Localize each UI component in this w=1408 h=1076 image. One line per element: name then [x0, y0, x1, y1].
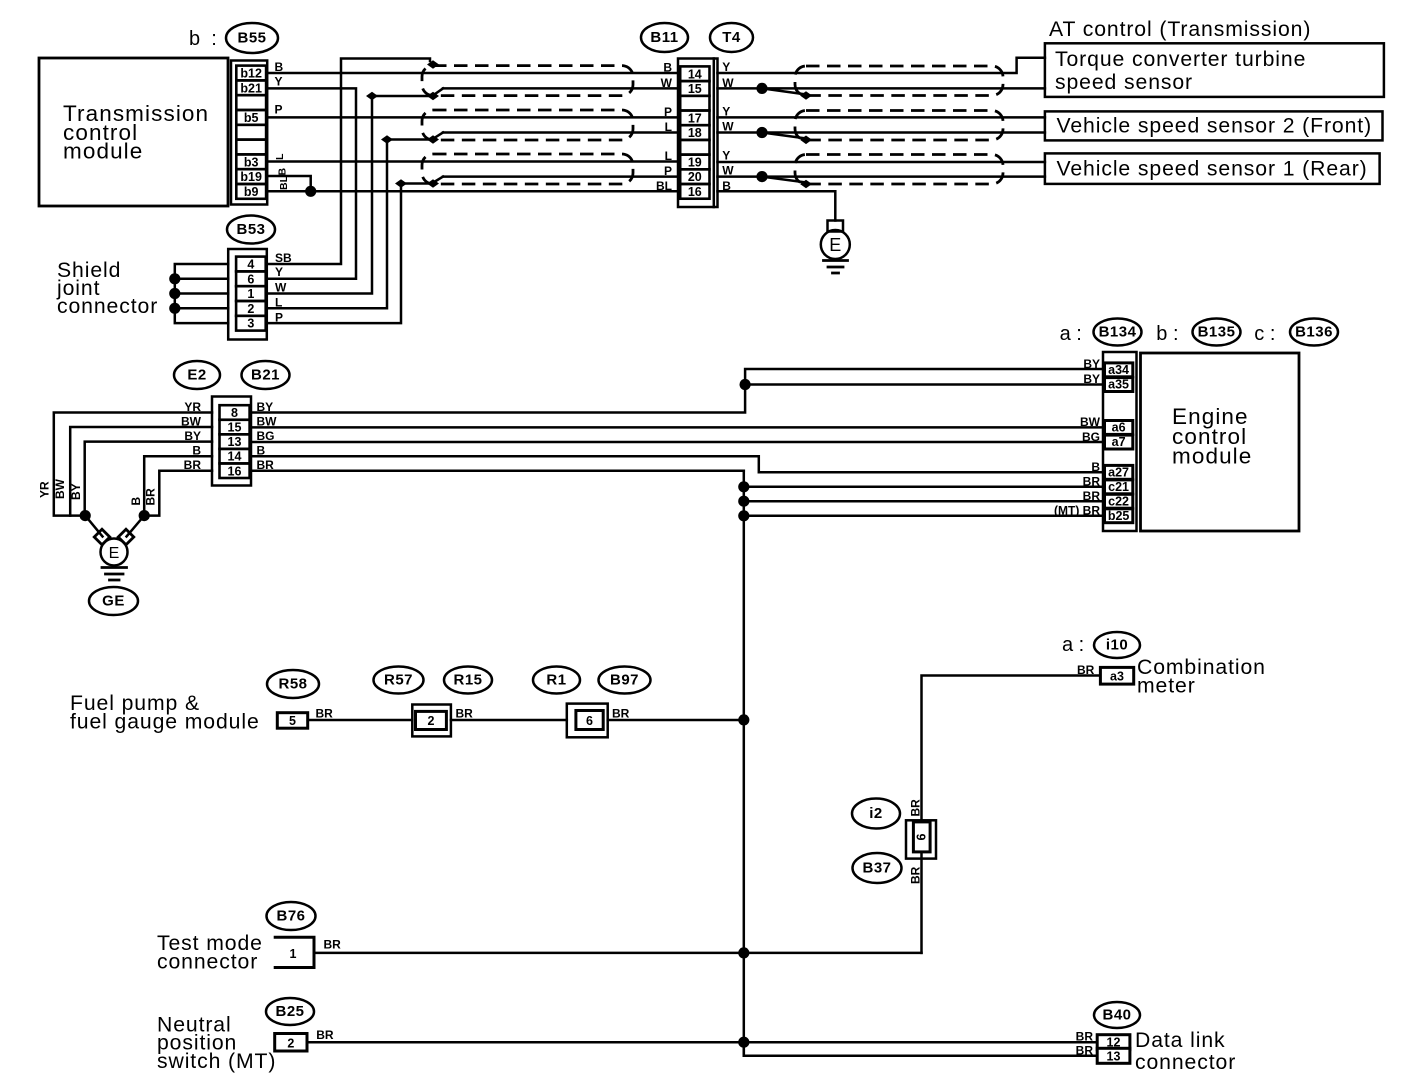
wire BR trunk to ECM c21 — [744, 486, 1105, 489]
connector B25 pin 2 — [275, 1028, 334, 1051]
wire BW from B21 pin 15 to ECM a6 — [251, 426, 1105, 429]
svg-text:E: E — [829, 235, 841, 255]
ground E symbol (engine ground) — [94, 529, 134, 580]
svg-text:R1: R1 — [546, 672, 566, 689]
svg-text:BR: BR — [1076, 1044, 1094, 1058]
connector R58 pin 5 — [277, 707, 333, 729]
svg-text:module: module — [1172, 444, 1252, 469]
svg-text:6: 6 — [915, 833, 929, 840]
connector R57/R15 pin 2 — [412, 705, 473, 737]
svg-text:BY: BY — [69, 483, 83, 500]
wire b21 Y down to B53 pin 6 — [266, 75, 356, 279]
svg-text:BR: BR — [1077, 663, 1095, 677]
E2 left wire color labels — [181, 400, 202, 472]
wire 20 W to vehicle speed sensor 1 — [718, 171, 1045, 188]
svg-text:BR: BR — [909, 866, 923, 884]
svg-text:B53: B53 — [236, 221, 265, 238]
svg-text:12: 12 — [1107, 1036, 1121, 1050]
svg-text:AT control (Transmission): AT control (Transmission) — [1049, 18, 1311, 41]
svg-text:L: L — [274, 153, 286, 160]
svg-text:T4: T4 — [722, 29, 741, 46]
svg-text:SB: SB — [275, 251, 292, 265]
svg-text:W: W — [661, 76, 673, 90]
wire b3 L to B11 pin 19 — [268, 153, 679, 162]
svg-text:Data link: Data link — [1135, 1029, 1226, 1052]
connector label B40 — [1094, 1002, 1140, 1028]
svg-text:B135: B135 — [1198, 324, 1236, 341]
wire E2 pin 13 BY to ground — [80, 442, 212, 537]
svg-text:BY: BY — [1083, 357, 1100, 371]
svg-text:E: E — [109, 545, 120, 562]
svg-text:13: 13 — [1107, 1049, 1121, 1063]
svg-text:i10: i10 — [1106, 637, 1128, 654]
svg-text:B: B — [663, 61, 672, 75]
wire R15 to R1 — [451, 719, 567, 722]
connector R1/B97 pin 6 — [567, 704, 630, 738]
wire BR from B21 pin 16 to trunk — [251, 469, 744, 472]
wire E2 pin 8 YR to ground — [54, 413, 212, 516]
svg-text:16: 16 — [688, 185, 702, 199]
svg-text:Vehicle speed sensor 1 (Rear): Vehicle speed sensor 1 (Rear) — [1057, 158, 1368, 181]
svg-text:W: W — [275, 281, 287, 295]
svg-text:Torque converter turbine: Torque converter turbine — [1055, 48, 1306, 71]
svg-text:BL: BL — [656, 179, 672, 193]
svg-text:connector: connector — [157, 951, 258, 974]
svg-text:BR: BR — [1083, 489, 1101, 503]
shield 2 right — [795, 111, 1003, 141]
svg-text:BR: BR — [1076, 1030, 1094, 1044]
svg-text:BR: BR — [316, 707, 334, 721]
ECM connector bracket and pins — [1103, 352, 1137, 531]
svg-text:R58: R58 — [278, 676, 307, 693]
svg-text:B: B — [275, 60, 284, 74]
svg-text:BG: BG — [1082, 430, 1100, 444]
rotated wire color labels at ground — [38, 478, 158, 505]
svg-text:2: 2 — [287, 1037, 294, 1051]
wire E2 pin 14 B to ground — [144, 456, 212, 515]
wire BY from B21 pin 8 to ECM a34/a35 — [251, 369, 1105, 413]
shield 2 left (pair 17/18) — [422, 110, 633, 140]
combination meter connector a3 — [1077, 663, 1134, 684]
svg-text:P: P — [275, 311, 283, 325]
svg-text:14: 14 — [228, 450, 242, 464]
wire R58 to R57 — [308, 719, 413, 722]
connector label b : B55 — [189, 23, 278, 53]
svg-text:b21: b21 — [240, 81, 262, 95]
svg-text:B: B — [277, 168, 289, 176]
trunk BR vertical — [738, 471, 749, 1056]
svg-text:L: L — [665, 149, 672, 163]
svg-text:P: P — [664, 105, 672, 119]
fuel pump & fuel gauge module text — [70, 692, 260, 734]
svg-text:speed sensor: speed sensor — [1055, 71, 1193, 94]
connector label R15 — [444, 667, 492, 694]
svg-text:19: 19 — [688, 156, 702, 170]
svg-text:16: 16 — [228, 464, 242, 478]
shield drain SB: B53 pin 4 up to shield 1 — [266, 59, 439, 265]
svg-text:B136: B136 — [1295, 324, 1333, 341]
connector label B37 — [853, 853, 902, 883]
connector label R57 — [374, 667, 424, 694]
svg-text:BY: BY — [1083, 372, 1100, 386]
svg-text:5: 5 — [289, 714, 296, 728]
svg-text:GE: GE — [102, 593, 125, 610]
svg-text:a6: a6 — [1112, 421, 1126, 435]
combination meter text — [1137, 656, 1266, 698]
ground label GE — [89, 587, 138, 615]
svg-text:a7: a7 — [1112, 435, 1126, 449]
svg-text:b3: b3 — [244, 155, 259, 169]
svg-text:L: L — [275, 296, 282, 310]
svg-text:B: B — [129, 497, 143, 506]
wire 16 B to ground — [718, 191, 836, 220]
svg-text:P: P — [664, 164, 672, 178]
torque converter turbine speed sensor box — [1045, 43, 1384, 97]
wire E2 pin 16 BR to ground — [127, 471, 213, 537]
svg-text:13: 13 — [228, 435, 242, 449]
svg-text:17: 17 — [688, 111, 702, 125]
wire 18 W to vehicle speed sensor 2 — [718, 127, 1045, 144]
connector E2/B21 — [212, 397, 251, 486]
wire trunk to data link pin 13 — [744, 1042, 1097, 1056]
svg-text:E2: E2 — [187, 367, 206, 384]
svg-text:BR: BR — [909, 799, 923, 817]
shield 3 right — [795, 155, 1003, 185]
svg-text:c :: c : — [1254, 323, 1275, 345]
wire B97 to trunk — [608, 719, 744, 722]
svg-text:3: 3 — [247, 317, 254, 331]
svg-text:connector: connector — [1135, 1051, 1236, 1074]
svg-text:R57: R57 — [384, 672, 413, 689]
svg-text:b25: b25 — [1108, 509, 1130, 523]
svg-text:18: 18 — [688, 126, 702, 140]
wire (MT) BR trunk to ECM b25 — [744, 515, 1105, 518]
svg-text:P: P — [275, 103, 283, 117]
B21 right wire color labels — [257, 400, 278, 472]
wire 17 Y to vehicle speed sensor 2 — [718, 116, 1045, 119]
wire E2 pin 15 BW to ground — [70, 427, 212, 516]
svg-text:fuel gauge module: fuel gauge module — [70, 711, 260, 734]
connector label B53 — [227, 216, 275, 244]
drain L: B53 pin 2 up to wire 18 — [266, 133, 443, 309]
svg-text:Y: Y — [722, 149, 730, 163]
svg-text:15: 15 — [228, 421, 242, 435]
svg-text:R15: R15 — [453, 672, 482, 689]
wire W to B11 pin 15 — [443, 87, 678, 90]
svg-text:a27: a27 — [1108, 466, 1129, 480]
svg-text:b5: b5 — [244, 111, 259, 125]
wire L to B11 pin 18 — [443, 131, 678, 134]
svg-text:b9: b9 — [244, 185, 259, 199]
svg-text:L: L — [665, 120, 672, 134]
test mode connector text — [157, 932, 263, 974]
svg-text:2: 2 — [428, 714, 435, 728]
svg-text:a :: a : — [1062, 634, 1084, 656]
svg-text:B11: B11 — [650, 29, 678, 46]
Transmission control module block — [39, 58, 228, 206]
connector label B21 — [242, 361, 290, 389]
wire b12 B to B11 pin 14 — [268, 60, 679, 74]
svg-text:c22: c22 — [1108, 494, 1129, 508]
connector B55 — [231, 61, 267, 205]
svg-text:BR: BR — [324, 938, 342, 952]
B11 right wire color labels — [722, 60, 734, 193]
connector label a : i10 — [1062, 632, 1140, 658]
svg-text:8: 8 — [231, 406, 238, 420]
svg-text:c21: c21 — [1108, 480, 1129, 494]
wire BG from B21 pin 13 to ECM a7 — [251, 441, 1105, 444]
connector label B76 — [267, 902, 316, 930]
svg-text:i2: i2 — [869, 805, 883, 822]
connector label T4 — [710, 23, 753, 52]
svg-text:6: 6 — [586, 714, 593, 728]
wire b5 P to B11 pin 17 — [268, 103, 679, 118]
svg-text:switch (MT): switch (MT) — [157, 1050, 276, 1073]
svg-text:a35: a35 — [1108, 378, 1129, 392]
svg-text:B97: B97 — [610, 672, 639, 689]
svg-text:b19: b19 — [240, 170, 262, 184]
svg-text:B25: B25 — [275, 1003, 304, 1020]
shield 3 left (pair 19/20) — [422, 154, 633, 184]
svg-text:14: 14 — [688, 67, 702, 81]
B11 left wire color labels — [656, 61, 673, 193]
svg-text:b12: b12 — [240, 67, 262, 81]
shield 1 right — [795, 66, 1003, 96]
svg-text:1: 1 — [247, 287, 254, 301]
svg-text:6: 6 — [247, 272, 254, 286]
data link connector pins 12/13 — [1076, 1030, 1130, 1064]
svg-text:B40: B40 — [1102, 1007, 1131, 1024]
svg-text:15: 15 — [688, 82, 702, 96]
connector label R58 — [267, 670, 319, 698]
neutral position switch text — [157, 1014, 276, 1074]
wire b19 B jog down to b9 wire — [268, 168, 317, 197]
svg-text:BW: BW — [1080, 415, 1101, 429]
B53 left bus wires — [169, 264, 228, 323]
svg-text:module: module — [63, 139, 143, 164]
svg-text:Vehicle speed sensor 2 (Front): Vehicle speed sensor 2 (Front) — [1057, 115, 1373, 138]
wire b9 BL to B11 pin 16 — [268, 175, 679, 191]
wire test mode to i2/B37 — [314, 952, 922, 955]
svg-text:4: 4 — [247, 258, 254, 272]
connector label B97 — [599, 667, 651, 694]
shield 1 left (pair 14/15) — [422, 66, 633, 96]
svg-text:BL: BL — [278, 175, 290, 190]
connector B11/T4 — [678, 59, 718, 208]
svg-text:b :: b : — [1156, 323, 1178, 345]
svg-text:meter: meter — [1137, 675, 1196, 698]
connector label R1 — [533, 667, 580, 694]
svg-text:a34: a34 — [1108, 363, 1129, 377]
connector label B25 — [266, 998, 314, 1025]
svg-text:B: B — [1091, 460, 1100, 474]
wire neutral switch to data link pin 12 — [307, 1041, 1097, 1044]
connector label B11 — [641, 23, 688, 52]
svg-text:a :: a : — [1060, 323, 1082, 345]
connector B53 — [228, 249, 267, 340]
svg-text:B37: B37 — [862, 860, 891, 877]
svg-text:B55: B55 — [237, 30, 266, 47]
ECM connector labels a : B134 b : B135 c : B136 — [1060, 319, 1338, 346]
connector label i2 — [852, 799, 900, 829]
svg-text:a3: a3 — [1110, 670, 1124, 684]
connector i2/B37 pin 6 — [906, 799, 936, 884]
connector B76 pin 1 — [275, 937, 341, 967]
B53 wire color labels — [275, 251, 292, 325]
wire BR trunk to ECM c22 — [744, 500, 1105, 503]
svg-text:BR: BR — [456, 707, 474, 721]
svg-text:(MT) BR: (MT) BR — [1054, 504, 1100, 518]
data link connector text — [1135, 1029, 1236, 1074]
wire 15 W to torque converter sensor — [718, 83, 1045, 100]
vehicle speed sensor 2 box — [1045, 111, 1383, 140]
drain P: B53 pin 3 up to wire 20 — [266, 177, 443, 324]
svg-text:B134: B134 — [1099, 324, 1137, 341]
combination meter branch wire — [922, 676, 1101, 953]
svg-text:BR: BR — [1083, 475, 1101, 489]
wire 19 Y to vehicle speed sensor 1 — [718, 161, 1045, 164]
svg-text:B76: B76 — [276, 908, 305, 925]
drain W: B53 pin 1 up to wire 15 — [266, 88, 443, 293]
svg-text:b :: b : — [189, 28, 217, 50]
ground E (sensor shield ground) — [821, 221, 850, 274]
ECM wire color labels — [1054, 357, 1101, 518]
svg-text:Y: Y — [275, 265, 283, 279]
svg-text:YR: YR — [38, 481, 52, 498]
svg-text:1: 1 — [290, 947, 297, 961]
svg-text:20: 20 — [688, 170, 702, 184]
svg-text:BR: BR — [612, 707, 630, 721]
wire P to B11 pin 20 — [443, 175, 678, 178]
shield joint connector text — [56, 259, 158, 318]
svg-text:connector: connector — [57, 295, 158, 318]
svg-text:BW: BW — [53, 478, 67, 499]
vehicle speed sensor 1 box — [1045, 153, 1380, 184]
svg-text:B21: B21 — [251, 367, 280, 384]
wire B from B21 pin 14 to ECM a27 — [251, 456, 1105, 472]
wire 14 Y to torque converter sensor — [718, 58, 1045, 73]
svg-text:BR: BR — [316, 1028, 334, 1042]
Engine control module block — [1141, 353, 1300, 531]
svg-text:Y: Y — [275, 75, 283, 89]
svg-text:2: 2 — [247, 302, 254, 316]
svg-text:BR: BR — [144, 488, 158, 506]
connector label E2 — [174, 361, 220, 389]
